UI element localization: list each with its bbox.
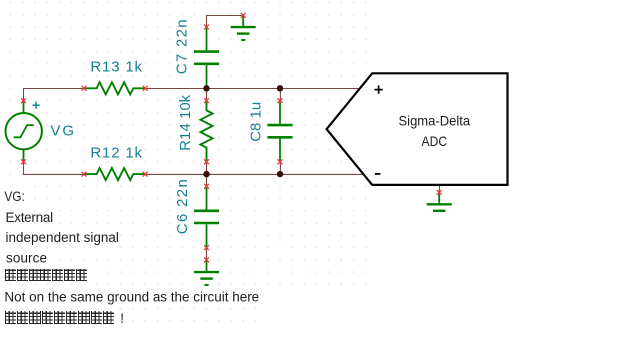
svg-text:VG: VG [50,123,74,140]
junction node D (bottom wire / C8) [277,171,283,177]
svg-text:R13 1k: R13 1k [90,59,142,76]
svg-text:C7 22n: C7 22n [173,19,190,74]
ground G1 (top, for C7) [231,15,256,40]
wire C7 top to ground G1 [207,16,244,28]
svg-text:External: External [6,210,54,225]
annotation text line 5 (Chinese): 外部独立信号源 [5,269,87,282]
svg-text:!: ! [120,311,124,326]
voltage source VG circle [6,113,42,149]
wire C6 bottom to ground G2 [206,248,208,260]
Sigma-Delta ADC block body [327,73,508,185]
svg-text:ADC: ADC [422,133,448,149]
ADC pin label + [375,86,383,94]
wire top-left from VG to R13 [24,89,85,101]
ground G2 (bottom, for C6) [194,260,219,285]
wire junction B to C8 top terminal [279,88,281,100]
VG bottom terminal stub [23,149,25,162]
wire junction C to C6 top terminal [206,174,208,186]
svg-text:VG:: VG: [4,189,24,204]
grid dots lower-left area [0,291,262,327]
svg-text:C8 1u: C8 1u [248,102,265,142]
resistor R13 [84,82,145,94]
wire ADC bottom pin to ground G3 [438,185,440,192]
ground G3 (below ADC) [427,192,452,210]
VG top terminal stub [23,101,25,114]
junction node A (top wire / R14,C7) [203,85,209,91]
junction node C (bottom wire / R14,C6) [203,171,209,177]
wire C8 bottom terminal to junction D [279,162,281,175]
grid dots main area [0,0,372,291]
capacitor C6 [194,186,219,247]
ADC pin label - [375,173,381,175]
svg-text:source: source [6,251,47,266]
resistor R12 [84,168,145,180]
wire junction A to R14 top terminal [206,88,208,100]
svg-text:Not on the same ground as the: Not on the same ground as the circuit he… [4,289,259,304]
svg-text:R14 10k: R14 10k [177,94,194,151]
terminal x marks (red crosses) [21,13,442,262]
capacitor C8 [268,101,293,162]
svg-text:independent signal: independent signal [6,230,119,245]
wire bottom-mid from R12 to ADC - input [145,173,362,175]
wire top-mid from R13 to ADC + input [145,88,359,90]
svg-text:C6 22n: C6 22n [174,179,191,234]
svg-text:Sigma-Delta: Sigma-Delta [399,113,471,129]
annotation text line 7 (Chinese): 和这里的电路不共地 [5,311,114,324]
capacitor C7 [194,27,219,88]
wire R14 bottom terminal to junction C [206,162,208,174]
wire bottom-left from VG to R12 [24,162,85,175]
VG polarity + sign [33,102,40,109]
resistor R14 (vertical) [200,101,212,162]
svg-text:R12 1k: R12 1k [90,144,142,161]
junction node B (top wire / C8) [277,85,283,91]
VG waveform symbol [14,125,34,137]
